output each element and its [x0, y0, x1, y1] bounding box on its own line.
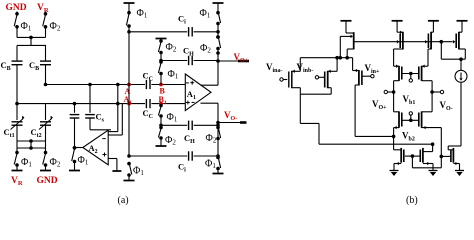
junction Ci bottom rail right	[216, 154, 220, 158]
wire A1 bottom output	[201, 102, 219, 104]
switch phi1 (A2 column)	[73, 146, 77, 150]
transistor P4 (output PMOS)	[459, 31, 462, 33]
wire Ct bottoms	[16, 125, 18, 152]
svg-text:(a): (a)	[118, 195, 129, 205]
junction CH bottom rail right	[217, 123, 219, 157]
wire to Ci rail	[217, 24, 219, 38]
transistor N1 (cascode NMOS left)	[393, 92, 395, 112]
wire A2 minus input to lower rail	[108, 131, 118, 133]
transistor P1 (diode PMOS)	[346, 32, 354, 34]
column R: top terminal	[213, 2, 224, 4]
svg-text:GND: GND	[37, 176, 58, 186]
switch phi2 (to GND, bottom)	[44, 151, 48, 155]
switch phi1 (column M bottom)	[127, 162, 131, 166]
transistor N3 (mirror NMOS left)	[394, 149, 402, 151]
terminal bar	[128, 175, 130, 181]
ground N4	[429, 170, 438, 172]
wire CB1 bottom to lower rail	[16, 65, 18, 104]
capacitor Cs (left unit)	[74, 104, 76, 113]
junction Ci top rail	[127, 30, 131, 34]
transistor P6 (cascode PMOS right)	[422, 65, 428, 67]
bias node Vb1	[402, 73, 418, 75]
op-amp A1 (fully differential)	[185, 74, 211, 111]
trimmer capacitor Ct2	[45, 104, 47, 120]
wire A2 plus input to terminal	[108, 158, 117, 160]
wire to VO+ node	[217, 49, 219, 62]
wire A2 output to phi1 column	[75, 147, 83, 149]
transistor N2 (cascode NMOS right)	[431, 92, 433, 112]
switch phi1 (column N below B1)	[159, 104, 163, 108]
wire lower signal rail (node A1)	[17, 103, 185, 105]
capacitor CB (left)	[12, 60, 23, 62]
terminal bar	[217, 169, 219, 174]
transistor P2 (mirror PMOS)	[397, 31, 403, 33]
junction coupling branch	[116, 83, 120, 87]
switch phi1 (column R bottom)	[216, 156, 220, 160]
junction	[29, 36, 33, 40]
wire CB2 bottom to upper rail	[45, 65, 47, 85]
wire stub down to CB top plate rail	[30, 37, 32, 45]
junction CB2	[44, 83, 48, 87]
switch phi1 (GND input, top left)	[16, 12, 18, 14]
op-amp A2 (points left)	[83, 130, 108, 165]
wire mirror gate bus	[411, 156, 413, 168]
wire CB top rail	[17, 44, 46, 46]
current source I1	[460, 59, 462, 70]
wire column M down through rails	[128, 26, 130, 156]
wire tail down and across	[299, 94, 301, 123]
node VO+ (b)	[392, 90, 396, 94]
wire A2 second input branch	[108, 134, 122, 136]
input terminal bubble Vinb-	[315, 76, 318, 79]
wire Ci top rail	[129, 31, 218, 33]
bias node Vb2	[402, 119, 418, 121]
wire A1 top output	[201, 84, 219, 86]
svg-text:GND: GND	[6, 3, 27, 13]
capacitor Ci (bottom)	[187, 151, 193, 160]
transistor M1 (input PMOS left)	[288, 72, 290, 88]
switch phi1 (column M top)	[127, 11, 131, 15]
wire to cascode NMOS source	[355, 135, 394, 137]
wire long bottom bus	[319, 143, 433, 145]
wire input block bottom rail	[300, 93, 331, 95]
junction Cs2 branch	[88, 83, 92, 87]
switch phi1 (column N to node B)	[159, 60, 163, 64]
wire Cs2 to A2 input	[90, 129, 111, 131]
transistor M3 (Vin+ PMOS)	[352, 58, 354, 71]
node A1 (red)	[127, 102, 131, 106]
switch phi2 (column R)	[216, 35, 220, 39]
power stub P4	[457, 20, 468, 22]
node VO+ output stub	[216, 59, 220, 63]
node VO- (b)	[430, 90, 434, 94]
node B1 (red)	[159, 102, 163, 106]
transistor N4 (mirror NMOS mid)	[432, 144, 434, 151]
wire CH top rail	[161, 60, 218, 62]
node VO- output stub	[216, 121, 220, 125]
power stub P2	[392, 20, 403, 22]
wire joining top switches	[16, 27, 18, 38]
ground N5	[455, 170, 464, 172]
junction CH top rail	[160, 53, 162, 61]
wire upper signal rail (node A)	[46, 84, 186, 86]
input terminal bubble Vin+	[371, 75, 374, 78]
capacitor CC (upper rail)	[145, 80, 151, 89]
wire mirror gate line	[354, 41, 452, 43]
switch phi1 (column R top)	[216, 11, 220, 15]
wire input block top rail	[300, 57, 352, 59]
power stub P1	[341, 20, 352, 22]
transistor P5 (cascode PMOS left)	[394, 65, 399, 67]
svg-text:(b): (b)	[406, 195, 418, 205]
column N: top terminal	[156, 38, 167, 40]
node B (red)	[159, 83, 163, 87]
terminal bar GND	[45, 165, 47, 171]
switch phi2 (column N top)	[159, 39, 163, 43]
switch phi2 (VR input, top)	[45, 12, 47, 14]
capacitor Cs (right unit)	[89, 85, 91, 113]
transistor P3 (mirror PMOS)	[431, 31, 433, 33]
transistor N5 (mirror NMOS right)	[441, 155, 450, 157]
ground N3	[390, 170, 399, 172]
terminal bar	[74, 162, 76, 171]
junction CB1	[15, 102, 19, 106]
wire bias node	[440, 42, 442, 60]
switch phi2 (column R bottom)	[216, 126, 220, 130]
wire CH bottom rail	[161, 124, 218, 126]
wire Ci bottom rail	[129, 155, 218, 157]
junction CH bottom rail	[159, 124, 163, 128]
junction Cs1 branch	[73, 102, 77, 106]
junction Ci bottom rail	[127, 154, 131, 158]
power stub P3	[428, 20, 439, 22]
wire current source down to T3	[460, 82, 462, 146]
switch phi1 (to VR, bottom left)	[15, 151, 19, 155]
capacitor CB (right)	[40, 60, 51, 62]
trimmer capacitor Ct1	[16, 104, 18, 120]
junction A2 feedback branch	[116, 102, 120, 106]
terminal bar	[160, 138, 162, 146]
transistor M2 (input PMOS right)	[324, 72, 326, 88]
capacitor CH (bottom)	[187, 121, 193, 130]
wire M3 drain down	[355, 84, 359, 86]
input terminal bubble Vina-	[280, 78, 283, 81]
switch phi2 (column N bottom)	[159, 126, 163, 130]
capacitor Ci (top)	[187, 27, 193, 36]
terminal bar VR	[16, 165, 18, 171]
capacitor CC (lower rail)	[145, 99, 151, 108]
capacitor CH (top)	[187, 56, 193, 65]
node A (red)	[127, 83, 131, 87]
column M: top terminal	[124, 2, 135, 4]
